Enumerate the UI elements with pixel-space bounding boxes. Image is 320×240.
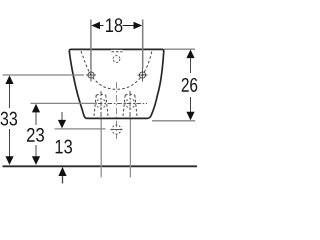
right fixing hole axis <box>129 91 131 119</box>
dim 33 ref line <box>3 74 85 76</box>
dim 18 line + arrows <box>91 22 142 30</box>
top edge thinning over tap <box>111 49 123 51</box>
dim label 26 <box>182 78 198 92</box>
right leg dashes <box>123 95 137 118</box>
centerline <box>116 82 118 139</box>
drain horizontal tick <box>111 129 123 131</box>
left boss dome arc <box>96 93 106 96</box>
right fixing hole horizontal tick <box>98 103 147 105</box>
left fixing hole dashed circle <box>96 99 105 108</box>
right fixing hole dashed circle <box>126 99 135 108</box>
left mounting hole crosshair <box>86 69 96 82</box>
dim 18 extension line left <box>90 20 92 69</box>
dim 26 line + arrows <box>186 50 194 121</box>
left leg dashes <box>94 95 108 118</box>
dim label 13 <box>56 140 72 154</box>
tap platform hidden edge <box>112 51 123 53</box>
dim 33 line + arrows <box>5 75 13 164</box>
inner rim dashed bowl <box>81 51 152 89</box>
right boss dome arc <box>125 93 135 96</box>
dim 18 extension line right <box>142 20 144 69</box>
left fixing hole axis <box>100 91 102 119</box>
below-floor vertical left fixing axis <box>100 119 102 178</box>
right mounting hole crosshair <box>138 69 148 82</box>
dim label 23 <box>27 128 44 142</box>
dim 23 ref line <box>31 102 97 104</box>
dim 23 line + arrows <box>32 104 40 165</box>
below-floor vertical right fixing axis <box>129 119 131 178</box>
floor line <box>3 165 198 167</box>
dim 26 bottom ref line <box>152 120 195 122</box>
drain dashed circle <box>112 125 121 134</box>
tap hole dashed circle <box>113 56 120 63</box>
dim label 18 <box>106 18 122 32</box>
dim 13 ref line <box>55 128 106 130</box>
bidet body outline <box>69 49 163 118</box>
dim 26 top ref line (top edge extension) <box>164 48 195 50</box>
dim 13 arrows (outside) <box>58 112 67 184</box>
dim label 33 <box>1 112 18 126</box>
